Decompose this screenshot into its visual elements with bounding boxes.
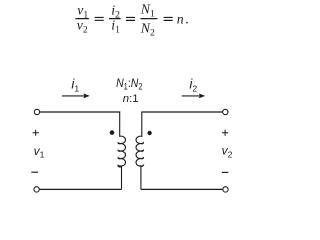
- polarity dot right: [147, 131, 151, 135]
- terminal circle bottom-right: [223, 187, 228, 192]
- current arrow i2: [182, 93, 205, 98]
- equals sign 2: [126, 17, 135, 20]
- wire top-left: [40, 111, 120, 113]
- svg-text:n.: n.: [177, 12, 189, 27]
- polarity plus (right): [222, 130, 228, 136]
- terminal circle top-left: [34, 109, 39, 114]
- secondary winding L2: [136, 112, 143, 190]
- fraction bar 1: [75, 18, 89, 19]
- polarity minus (right): [222, 171, 229, 173]
- primary winding L1: [118, 112, 125, 190]
- wire top-right: [142, 111, 223, 113]
- wire bottom-left: [40, 188, 122, 190]
- current arrow i1: [62, 93, 90, 98]
- polarity dot left: [110, 130, 115, 135]
- equals sign 1: [95, 17, 104, 20]
- terminal circle bottom-left: [34, 187, 39, 192]
- equals sign 3: [164, 17, 173, 20]
- terminal circle top-right: [223, 109, 228, 114]
- polarity minus (left): [31, 171, 38, 173]
- fraction bar 3: [140, 18, 157, 19]
- svg-text:n:1: n:1: [123, 93, 139, 105]
- equation v1/v2 = i2/i1 = N1/N2 = n.: [75, 1, 188, 38]
- wire bottom-right: [141, 188, 223, 190]
- fraction bar 2: [109, 18, 121, 19]
- polarity plus (left): [33, 130, 39, 136]
